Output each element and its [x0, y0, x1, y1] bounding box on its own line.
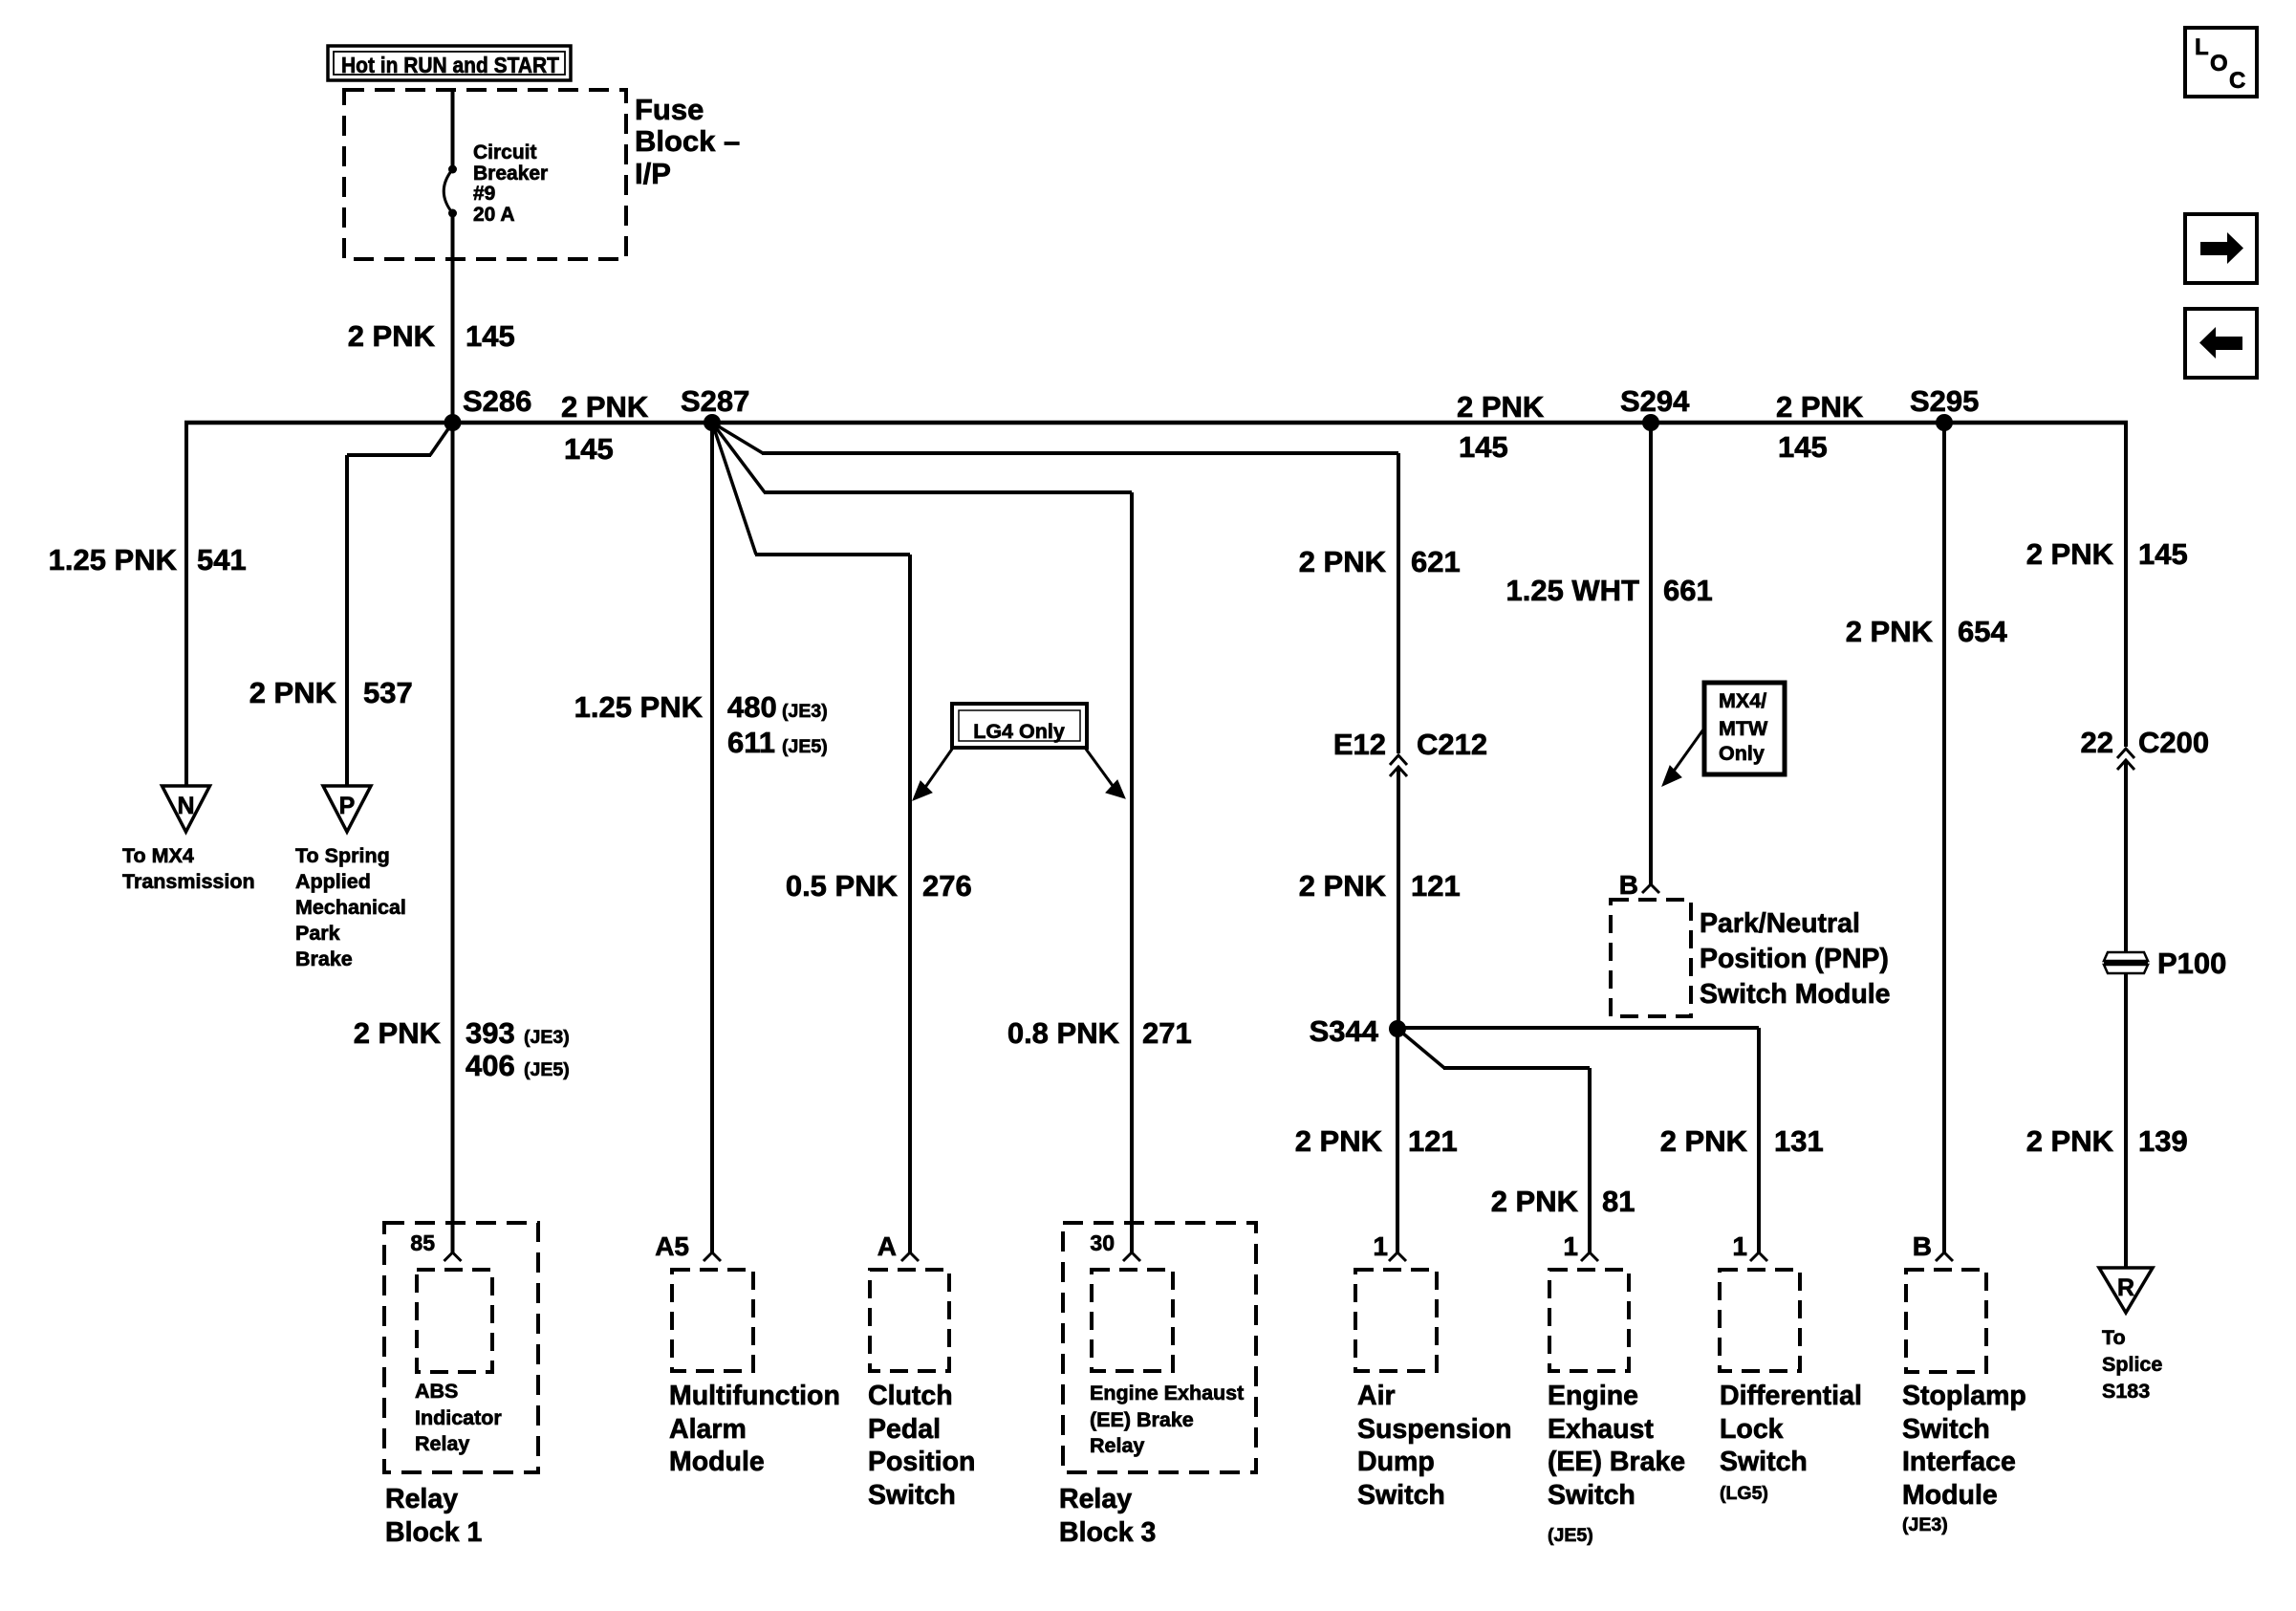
svg-text:(JE3): (JE3): [524, 1027, 570, 1048]
triangle connector R to splice S183: [2099, 1268, 2153, 1313]
pin A terminal chevron: [901, 1252, 919, 1261]
wire S344 to EE brake switch (2 PNK 81): [1397, 1029, 1444, 1068]
svg-text:A5: A5: [655, 1231, 689, 1261]
svg-text:Relay: Relay: [1090, 1434, 1144, 1457]
svg-text:C: C: [2229, 68, 2245, 94]
pin 1 terminal chevron (EE brake switch): [1581, 1252, 1598, 1261]
svg-text:393: 393: [466, 1016, 515, 1050]
svg-text:406: 406: [466, 1049, 515, 1082]
svg-text:145: 145: [1459, 430, 1508, 464]
svg-text:(LG5): (LG5): [1720, 1483, 1768, 1504]
svg-text:Clutch: Clutch: [868, 1381, 953, 1411]
svg-text:621: 621: [1411, 545, 1461, 578]
wire S287 to E12 C212 (2 PNK 621): [712, 423, 763, 453]
svg-text:Switch: Switch: [1902, 1414, 1990, 1445]
clutch pedal position switch dashed box: [870, 1270, 949, 1371]
svg-text:(JE3): (JE3): [1902, 1514, 1948, 1535]
svg-text:Transmission: Transmission: [122, 870, 255, 893]
svg-text:1.25 WHT: 1.25 WHT: [1505, 574, 1639, 607]
splice S344: [1389, 1020, 1406, 1037]
svg-text:#9: #9: [473, 183, 495, 205]
svg-text:(EE) Brake: (EE) Brake: [1548, 1447, 1685, 1477]
pin 30 terminal chevron: [1123, 1252, 1140, 1261]
relay block 3 outer dashed box: [1063, 1223, 1256, 1472]
LG4 arrow right: [1085, 748, 1118, 794]
EE brake relay dashed box: [1092, 1270, 1173, 1371]
svg-text:121: 121: [1408, 1124, 1458, 1158]
svg-text:(JE5): (JE5): [782, 736, 828, 757]
grommet P100: [2104, 952, 2148, 961]
svg-text:2 PNK: 2 PNK: [1457, 390, 1545, 424]
svg-text:Mechanical: Mechanical: [295, 896, 406, 919]
splice S286: [444, 414, 462, 431]
connector C200 symbol: [2117, 749, 2134, 758]
svg-text:Circuit: Circuit: [473, 142, 537, 163]
svg-text:B: B: [1619, 870, 1638, 900]
svg-text:Engine: Engine: [1548, 1381, 1638, 1411]
svg-text:(JE3): (JE3): [782, 701, 828, 722]
wire P100 to R triangle (2 PNK 139): [2124, 973, 2128, 1268]
LG4 arrow left: [920, 748, 953, 795]
triangle connector N to MX4 transmission: [162, 786, 210, 832]
svg-text:81: 81: [1602, 1185, 1635, 1218]
wire 2 PNK 537 branch to P: [430, 423, 453, 455]
svg-text:Interface: Interface: [1902, 1447, 2016, 1477]
pin B terminal chevron (stoplamp): [1936, 1252, 1953, 1261]
svg-text:139: 139: [2138, 1124, 2188, 1158]
wire circuit breaker to S286: [451, 213, 455, 423]
svg-text:Switch: Switch: [1720, 1447, 1808, 1477]
svg-text:Switch Module: Switch Module: [1700, 979, 1891, 1010]
EE brake switch dashed box: [1549, 1270, 1629, 1371]
triangle connector P to park brake: [323, 786, 371, 832]
svg-text:145: 145: [2138, 537, 2188, 571]
svg-text:(EE) Brake: (EE) Brake: [1090, 1408, 1194, 1431]
svg-text:1: 1: [1563, 1231, 1578, 1261]
pin A5 terminal chevron: [704, 1252, 721, 1261]
svg-text:276: 276: [922, 869, 972, 903]
park/neutral position switch module dashed box: [1611, 900, 1691, 1016]
wire bus right end down 2 PNK 145: [2124, 421, 2128, 747]
svg-text:Block 3: Block 3: [1059, 1517, 1156, 1548]
svg-text:(JE5): (JE5): [1548, 1525, 1593, 1546]
svg-text:A: A: [877, 1231, 897, 1261]
svg-text:2 PNK: 2 PNK: [249, 676, 337, 709]
svg-text:145: 145: [466, 319, 515, 353]
wire S295 down 2 PNK 654 to stoplamp module: [1942, 423, 1946, 1252]
wire S294 down 1.25 WHT 661 to PNP switch module: [1649, 423, 1653, 884]
svg-text:Hot in RUN and START: Hot in RUN and START: [341, 53, 559, 77]
svg-text:541: 541: [197, 543, 247, 577]
circuit breaker #9 20 A symbol: [448, 165, 457, 174]
pin 1 terminal chevron (differential lock): [1750, 1252, 1767, 1261]
svg-text:Pedal: Pedal: [868, 1414, 941, 1445]
LOC reference box: [2185, 28, 2257, 97]
next page arrow box: [2185, 214, 2257, 283]
splice S294: [1642, 414, 1659, 431]
svg-text:2 PNK: 2 PNK: [1491, 1185, 1579, 1218]
svg-text:2 PNK: 2 PNK: [348, 319, 436, 353]
svg-text:0.8 PNK: 0.8 PNK: [1007, 1016, 1120, 1050]
svg-text:Switch: Switch: [868, 1480, 956, 1511]
svg-text:Lock: Lock: [1720, 1414, 1784, 1445]
svg-text:2 PNK: 2 PNK: [1776, 390, 1864, 424]
splice S295: [1936, 414, 1953, 431]
svg-text:480: 480: [727, 690, 777, 724]
svg-text:(JE5): (JE5): [524, 1059, 570, 1080]
svg-text:0.5 PNK: 0.5 PNK: [786, 869, 899, 903]
svg-text:30: 30: [1090, 1230, 1115, 1255]
svg-text:Relay: Relay: [385, 1484, 458, 1514]
svg-text:2 PNK: 2 PNK: [1846, 615, 1934, 648]
svg-text:ABS: ABS: [415, 1380, 458, 1403]
svg-text:P: P: [339, 793, 356, 819]
svg-text:B: B: [1913, 1231, 1932, 1261]
svg-text:2 PNK: 2 PNK: [1299, 545, 1387, 578]
fuse block I/P dashed box: [344, 90, 626, 259]
svg-text:S183: S183: [2102, 1380, 2150, 1403]
svg-text:Relay: Relay: [415, 1432, 469, 1455]
svg-text:Park/Neutral: Park/Neutral: [1700, 908, 1860, 939]
svg-text:20 A: 20 A: [473, 204, 515, 226]
svg-text:2 PNK: 2 PNK: [1295, 1124, 1383, 1158]
svg-text:To MX4: To MX4: [122, 844, 194, 867]
svg-text:1.25 PNK: 1.25 PNK: [49, 543, 178, 577]
previous page arrow box: [2185, 309, 2257, 378]
svg-text:271: 271: [1142, 1016, 1192, 1050]
relay block 1 outer dashed box: [384, 1223, 538, 1472]
svg-text:Brake: Brake: [295, 947, 353, 970]
svg-text:S344: S344: [1310, 1014, 1379, 1048]
wire 1.25 PNK 541 branch to N: [184, 421, 188, 786]
stoplamp switch interface module dashed box: [1906, 1270, 1986, 1372]
svg-text:Park: Park: [295, 922, 340, 945]
svg-text:2 PNK: 2 PNK: [561, 390, 649, 424]
svg-text:Splice: Splice: [2102, 1353, 2162, 1376]
svg-text:E12: E12: [1333, 728, 1386, 761]
svg-text:Position: Position: [868, 1447, 975, 1477]
svg-text:Only: Only: [1719, 742, 1765, 765]
svg-text:Module: Module: [1902, 1480, 1998, 1511]
svg-text:Suspension: Suspension: [1357, 1414, 1512, 1445]
svg-text:2 PNK: 2 PNK: [354, 1016, 442, 1050]
svg-text:Stoplamp: Stoplamp: [1902, 1381, 2026, 1411]
svg-text:MTW: MTW: [1719, 717, 1768, 740]
air suspension dump switch dashed box: [1355, 1270, 1437, 1371]
svg-text:I/P: I/P: [635, 157, 671, 190]
svg-text:131: 131: [1774, 1124, 1824, 1158]
wire C212 to S344 (2 PNK 121): [1397, 767, 1400, 1031]
pin 85 terminal chevron: [444, 1252, 462, 1261]
wire C200 to P100: [2124, 760, 2128, 956]
svg-text:654: 654: [1958, 615, 2007, 648]
svg-text:MX4/: MX4/: [1719, 689, 1766, 712]
differential lock switch dashed box: [1720, 1270, 1800, 1371]
svg-text:Fuse: Fuse: [635, 93, 704, 126]
svg-text:R: R: [2117, 1274, 2134, 1301]
svg-text:85: 85: [410, 1230, 435, 1255]
svg-text:N: N: [177, 793, 194, 819]
svg-text:P100: P100: [2157, 947, 2226, 980]
ABS indicator relay dashed box: [417, 1270, 492, 1372]
svg-text:C212: C212: [1417, 728, 1487, 761]
svg-text:1: 1: [1732, 1231, 1747, 1261]
svg-text:537: 537: [363, 676, 413, 709]
svg-text:22: 22: [2081, 726, 2113, 759]
wire S287 to clutch pedal position switch (0.5 PNK 276): [712, 423, 756, 555]
svg-text:Air: Air: [1357, 1381, 1396, 1411]
svg-text:LG4 Only: LG4 Only: [973, 720, 1065, 743]
splice S287: [704, 414, 721, 431]
svg-text:S286: S286: [463, 384, 531, 418]
svg-text:2 PNK: 2 PNK: [2026, 1124, 2114, 1158]
svg-text:C200: C200: [2138, 726, 2209, 759]
svg-text:S287: S287: [681, 384, 749, 418]
svg-text:Applied: Applied: [295, 870, 371, 893]
svg-text:Multifunction: Multifunction: [669, 1381, 840, 1411]
svg-text:1.25 PNK: 1.25 PNK: [574, 690, 704, 724]
svg-text:145: 145: [1778, 430, 1828, 464]
MX4 arrow: [1670, 729, 1703, 776]
wire S286 down 2 PNK 393/406 to relay block 1: [451, 423, 455, 1252]
svg-text:Switch: Switch: [1548, 1480, 1635, 1511]
svg-text:2 PNK: 2 PNK: [1660, 1124, 1748, 1158]
svg-text:2 PNK: 2 PNK: [1299, 869, 1387, 903]
svg-text:Block –: Block –: [635, 124, 740, 158]
svg-text:Switch: Switch: [1357, 1480, 1445, 1511]
wire S344 to differential lock switch (2 PNK 131): [1397, 1026, 1759, 1030]
label box Hot in RUN and START: [328, 46, 571, 80]
svg-text:Block 1: Block 1: [385, 1517, 483, 1548]
svg-text:611: 611: [727, 726, 775, 759]
svg-text:Module: Module: [669, 1447, 765, 1477]
svg-text:145: 145: [564, 432, 614, 466]
connector C212 symbol: [1390, 755, 1407, 765]
svg-text:1: 1: [1373, 1231, 1388, 1261]
wire S287 to relay block 3 (0.8 PNK 271): [712, 423, 765, 492]
svg-text:Position (PNP): Position (PNP): [1700, 944, 1889, 974]
svg-text:2 PNK: 2 PNK: [2026, 537, 2114, 571]
wire S344 down 2 PNK 121 to air suspension dump switch: [1396, 1029, 1399, 1252]
svg-text:Differential: Differential: [1720, 1381, 1862, 1411]
svg-text:Breaker: Breaker: [473, 163, 548, 185]
svg-text:O: O: [2210, 51, 2228, 76]
label box MX4/MTW Only: [1704, 683, 1785, 774]
svg-text:661: 661: [1663, 574, 1713, 607]
wire from fuse block to S286: [451, 90, 455, 169]
svg-text:To: To: [2102, 1326, 2126, 1349]
svg-text:Dump: Dump: [1357, 1447, 1435, 1477]
pin B terminal chevron (PNP): [1642, 884, 1659, 893]
svg-text:121: 121: [1411, 869, 1461, 903]
svg-text:Engine Exhaust: Engine Exhaust: [1090, 1382, 1244, 1404]
svg-text:Relay: Relay: [1059, 1484, 1132, 1514]
wire main bus 2 PNK 145: [184, 421, 2128, 425]
multifunction alarm module dashed box: [672, 1270, 753, 1371]
svg-text:S295: S295: [1910, 384, 1979, 418]
svg-text:S294: S294: [1620, 384, 1690, 418]
svg-text:Exhaust: Exhaust: [1548, 1414, 1654, 1445]
svg-text:L: L: [2195, 34, 2209, 60]
svg-text:Indicator: Indicator: [415, 1406, 502, 1429]
label box LG4 Only: [952, 704, 1087, 748]
pin 1 terminal chevron (air suspension): [1389, 1252, 1406, 1261]
svg-text:Alarm: Alarm: [669, 1414, 747, 1445]
svg-text:To Spring: To Spring: [295, 844, 390, 867]
wire S287 down 1.25 PNK 480/611 to multifunction alarm module: [710, 423, 714, 1252]
